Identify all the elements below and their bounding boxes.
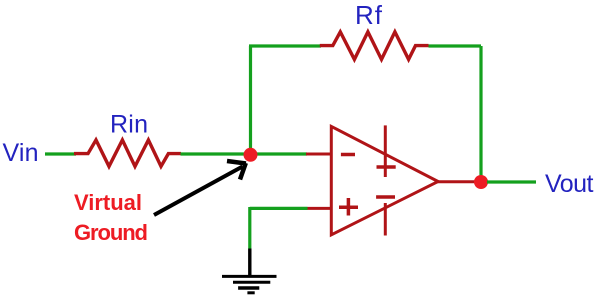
wire Rin to virtual ground node xyxy=(181,152,251,155)
wire node up to feedback xyxy=(249,46,252,154)
op-amp U1 inverting input minus sign xyxy=(341,153,355,157)
svg-text:Vin: Vin xyxy=(3,139,39,167)
wire output to Vout xyxy=(487,180,536,183)
wire ground to non-inverting input xyxy=(250,207,308,210)
svg-text:Rf: Rf xyxy=(355,0,383,30)
resistor Rin xyxy=(74,140,181,166)
op-amp U1 output stub xyxy=(437,180,481,183)
wire top horizontal to Rf xyxy=(249,44,321,47)
op-amp U1 non-inverting input stub xyxy=(308,207,332,210)
wire right vertical down to output node xyxy=(479,46,482,182)
svg-text:Virtual: Virtual xyxy=(74,190,142,215)
op-amp U1 negative supply pin xyxy=(376,197,395,236)
svg-text:Vout: Vout xyxy=(545,170,594,198)
op-amp U1 inverting input stub xyxy=(306,153,331,156)
ground xyxy=(222,249,277,293)
node output junction xyxy=(474,175,488,189)
wire Rf to right vertical xyxy=(429,44,482,47)
op-amp U1 positive supply pin xyxy=(377,125,396,177)
node virtual ground junction xyxy=(244,148,258,162)
annotation arrow to virtual ground node xyxy=(154,161,246,215)
svg-text:Ground: Ground xyxy=(74,220,148,245)
svg-text:Rin: Rin xyxy=(110,111,148,139)
op-amp U1 non-inverting input plus sign xyxy=(339,198,358,216)
op-amp U1 triangle body xyxy=(331,126,438,234)
wire node to inverting input xyxy=(250,152,307,155)
wire down to ground xyxy=(248,207,251,249)
resistor Rf xyxy=(320,32,429,60)
wire Vin to Rin xyxy=(45,152,76,155)
